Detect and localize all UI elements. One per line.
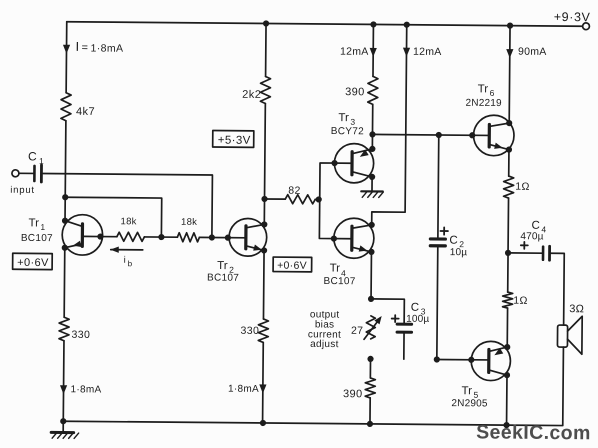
wire to Tr2 base <box>212 237 246 239</box>
node B-bottom <box>260 420 266 426</box>
svg-text:3Ω: 3Ω <box>569 303 584 315</box>
svg-text:+9·3V: +9·3V <box>554 10 591 24</box>
label Tr5 <box>461 385 478 400</box>
wire C to node <box>371 104 373 134</box>
node rail-2k2 <box>263 20 269 26</box>
resistor 82 <box>285 185 315 204</box>
wire feedback B <box>65 197 162 237</box>
svg-text:Tr: Tr <box>478 83 489 95</box>
wire C node to Tr3 emitter <box>371 134 373 148</box>
svg-text:2N2219: 2N2219 <box>466 98 503 109</box>
label Tr4 <box>330 263 347 279</box>
svg-text:I: I <box>75 39 79 54</box>
resistor 4k7 <box>61 93 95 121</box>
svg-text:C: C <box>411 302 419 314</box>
svg-text:100µ: 100µ <box>406 314 429 325</box>
node Tr5 emitter <box>504 344 510 350</box>
wire F mid <box>507 198 509 253</box>
transistor Tr6 <box>473 115 514 156</box>
node Tr4 base edge <box>331 235 337 241</box>
wire 12mA2 jog <box>372 24 407 225</box>
svg-text:Tr: Tr <box>330 263 341 275</box>
node Tr4 emitter <box>368 249 374 255</box>
svg-text:BC107: BC107 <box>323 276 355 287</box>
svg-text:BC107: BC107 <box>207 272 239 283</box>
terminal +9.3V <box>554 10 591 30</box>
svg-text:+0·6V: +0·6V <box>277 260 307 272</box>
svg-text:18k: 18k <box>181 217 197 228</box>
node 18k junction <box>158 234 164 240</box>
svg-text:6: 6 <box>490 88 495 98</box>
svg-text:input: input <box>10 185 35 196</box>
node Tr6 base edge <box>469 132 475 138</box>
wire A to Tr1 collector <box>64 197 66 220</box>
label plus C4 <box>521 242 528 249</box>
resistor 330 right <box>240 319 268 343</box>
node F-bottom <box>503 422 509 428</box>
svg-text:1Ω: 1Ω <box>515 181 529 193</box>
current arrow 1.8mA right <box>228 384 266 395</box>
node Tr5 base edge <box>468 357 474 363</box>
transistor Tr1 <box>62 215 103 256</box>
node Tr3 emitter <box>369 146 375 152</box>
current arrow 12mA first <box>340 46 377 58</box>
wire left branch upper <box>65 22 68 93</box>
svg-text:330: 330 <box>241 325 260 337</box>
node Tr6 collector <box>506 120 512 126</box>
svg-text:Tr: Tr <box>28 217 39 229</box>
node Tr2 collector <box>261 221 267 227</box>
node input-base <box>209 234 215 240</box>
svg-text:12mA: 12mA <box>413 46 442 58</box>
terminal input <box>12 170 34 177</box>
svg-text:adjust: adjust <box>310 339 339 350</box>
wire F to 1ohm <box>508 150 510 176</box>
voltage box +0.6V Tr2 <box>273 257 312 272</box>
svg-text:1: 1 <box>40 222 45 232</box>
current arrow 90mA <box>506 46 547 59</box>
wire ground rail <box>63 421 506 425</box>
label 2N2905 <box>451 398 488 409</box>
node T6row-C2 <box>436 132 442 138</box>
node rail-12mA2 <box>404 22 410 28</box>
node Tr1 emitter <box>62 245 68 251</box>
svg-text:470µ: 470µ <box>520 231 543 242</box>
node C-T5row <box>367 356 373 362</box>
svg-text:18k: 18k <box>120 216 136 227</box>
resistor 18k first <box>117 216 145 241</box>
label Tr6 <box>478 83 495 98</box>
transistor Tr2 <box>229 218 267 256</box>
capacitor C4 <box>507 220 564 325</box>
wire B mid <box>264 103 267 198</box>
node C-bottom <box>367 421 373 427</box>
svg-text:2N2905: 2N2905 <box>451 398 488 409</box>
svg-text:=: = <box>81 42 88 54</box>
current arrow 12mA second <box>403 46 442 58</box>
wire B emitter to 330 <box>262 250 265 318</box>
node B-82 <box>261 196 267 202</box>
wire Tr6 base <box>372 134 489 135</box>
svg-text:C: C <box>449 235 457 247</box>
svg-text:C: C <box>531 220 539 232</box>
label plus C3 <box>392 315 399 322</box>
node C-C3 <box>368 296 374 302</box>
wire B upper <box>265 23 267 76</box>
node F-C4 <box>505 250 511 256</box>
wire F to Tr5 emitter <box>506 308 508 347</box>
resistor 330 left <box>59 317 90 341</box>
wire F mid2 <box>507 253 509 292</box>
resistor 390 top <box>345 76 378 104</box>
current arrow ib <box>110 246 143 268</box>
svg-text:2k2: 2k2 <box>242 89 261 101</box>
wire speaker to rail <box>507 347 564 426</box>
wire B to Tr2 collector <box>263 199 265 224</box>
svg-text:BCY72: BCY72 <box>331 126 364 137</box>
wire Tr5 collector down <box>506 375 508 425</box>
svg-text:Tr: Tr <box>217 260 228 272</box>
node A-wireB <box>62 194 68 200</box>
label Tr2 <box>217 260 234 275</box>
svg-text:1·8mA: 1·8mA <box>228 384 259 395</box>
svg-text:27: 27 <box>351 325 363 337</box>
svg-text:1Ω: 1Ω <box>513 295 527 307</box>
svg-text:82: 82 <box>288 185 301 197</box>
svg-text:1·8mA: 1·8mA <box>90 42 123 54</box>
wire Tr4 emitter down <box>370 252 372 299</box>
wire 18k1 to junction <box>144 236 161 238</box>
svg-text:1·8mA: 1·8mA <box>70 384 101 395</box>
svg-text:90mA: 90mA <box>518 46 547 58</box>
capacitor C3 <box>397 302 430 360</box>
ground Tr3 <box>361 177 383 198</box>
transistor Tr3 <box>334 143 374 183</box>
voltage box +0.6V Tr1 <box>13 253 53 269</box>
label Tr1 <box>28 217 45 232</box>
speaker 3ohm <box>557 303 584 354</box>
wire C2 upper <box>437 135 440 237</box>
node Tr3 collector <box>369 174 375 180</box>
wire +9.3V supply rail <box>67 22 583 27</box>
label BCY72 <box>331 126 364 137</box>
wire Tr5 base <box>437 358 489 360</box>
svg-text:1: 1 <box>39 156 44 166</box>
wire A emitter to 330 <box>63 248 66 317</box>
svg-text:330: 330 <box>71 329 90 341</box>
voltage box +5.3V <box>213 131 254 148</box>
wire Tr1 base to 18k <box>100 236 116 238</box>
label BC107 Tr4 <box>323 276 355 287</box>
node Tr1 base <box>97 233 103 239</box>
svg-text:Tr: Tr <box>461 385 472 397</box>
wire F upper <box>508 26 511 123</box>
wire B lower <box>262 342 265 422</box>
resistor 2k2 <box>242 76 271 103</box>
wire C2 lower <box>436 247 439 359</box>
node rail-90mA <box>507 22 513 28</box>
node 82-J <box>316 196 322 202</box>
capacitor C1 <box>28 149 44 182</box>
svg-text:+5·3V: +5·3V <box>218 135 251 147</box>
node Tr2 base edge <box>225 235 231 241</box>
label output bias current adjust <box>308 309 342 350</box>
svg-text:i: i <box>124 255 126 266</box>
wire A lower <box>62 341 65 421</box>
node rail-390a <box>370 21 376 27</box>
wire C1 to Tr2 base <box>42 174 212 238</box>
wire C upper <box>372 24 374 76</box>
wire J to Tr3 base <box>320 163 352 200</box>
svg-text:390: 390 <box>343 388 363 400</box>
label Tr3 <box>338 112 355 127</box>
svg-text:BC107: BC107 <box>21 233 53 244</box>
wire 18k2 to node <box>199 236 211 238</box>
node Tr6 emitter <box>506 146 512 152</box>
wire J to Tr4 base <box>319 199 352 238</box>
node Tr1 collector <box>62 218 68 224</box>
node Tr5 collector <box>504 372 510 378</box>
svg-text:12mA: 12mA <box>340 46 369 58</box>
current arrow 1.8mA left <box>60 384 102 395</box>
transistor Tr5 <box>471 341 511 381</box>
watermark SeekIC.com <box>476 421 591 444</box>
resistor 18k second <box>177 217 199 242</box>
svg-text:SeekIC.com: SeekIC.com <box>476 421 591 444</box>
node Tr4 collector <box>369 222 375 228</box>
label input <box>10 185 35 196</box>
label BC107 Tr2 <box>207 272 239 283</box>
wire 82 right <box>315 198 319 200</box>
svg-text:+0·6V: +0·6V <box>17 257 49 269</box>
capacitor C2 <box>430 234 467 258</box>
rheostat 27 <box>351 316 382 340</box>
node 390-Tr6base <box>369 131 375 137</box>
resistor 1ohm top <box>504 176 530 198</box>
node Tr3 base edge <box>331 160 337 166</box>
svg-text:C: C <box>28 149 37 163</box>
resistor 1ohm bottom <box>503 292 528 308</box>
wire A mid <box>64 121 67 197</box>
node C2-T5row <box>434 356 440 362</box>
node A-bottom <box>60 418 66 424</box>
svg-text:390: 390 <box>345 86 365 98</box>
svg-text:b: b <box>128 259 133 268</box>
svg-text:4k7: 4k7 <box>76 106 95 118</box>
svg-text:Tr: Tr <box>338 112 349 124</box>
node Tr2 emitter <box>261 247 267 253</box>
label plus C2 <box>440 227 448 234</box>
current arrow I=1.8mA <box>63 39 124 55</box>
label BC107 Tr1 <box>21 233 53 244</box>
resistor 390 bottom <box>343 359 376 424</box>
wire C3 link <box>371 299 405 323</box>
wire junction to 18k2 <box>161 236 177 238</box>
ground main <box>51 421 79 438</box>
transistor Tr4 <box>334 218 374 258</box>
wire 82 left <box>265 198 286 200</box>
svg-text:10µ: 10µ <box>450 247 468 258</box>
label 2N2219 <box>466 98 503 109</box>
